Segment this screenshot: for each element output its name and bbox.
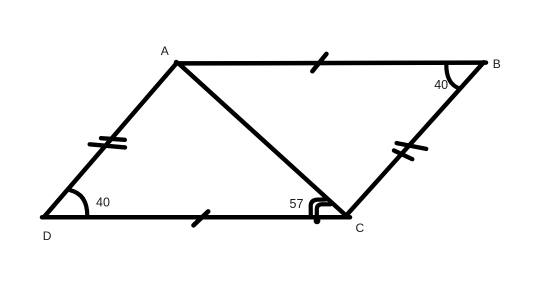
- dot below C angle arcs: [314, 217, 321, 224]
- side DA: [44, 63, 177, 217]
- side BC: [346, 62, 484, 216]
- svg-text:B: B: [493, 57, 501, 71]
- side AB: [177, 60, 486, 65]
- angle arc at D: [70, 190, 87, 216]
- inner angle arc at C: [317, 204, 331, 217]
- svg-text:C: C: [356, 221, 365, 235]
- svg-text:40: 40: [96, 196, 110, 210]
- angle arc at B: [446, 64, 459, 89]
- tick mark on AB: [312, 54, 326, 71]
- svg-text:D: D: [43, 229, 52, 243]
- double tick upper on DA: [101, 138, 125, 140]
- double tick lower on DA: [90, 144, 125, 147]
- diagonal AC: [179, 64, 347, 216]
- tick mark on DC: [194, 211, 209, 225]
- side DC: [42, 215, 350, 220]
- svg-text:A: A: [161, 44, 169, 58]
- double tick lower on BC: [394, 151, 412, 160]
- vertex dot A: [174, 60, 179, 65]
- outer angle arc at C: [311, 200, 326, 216]
- svg-text:40: 40: [434, 78, 448, 92]
- double tick upper on BC: [397, 143, 427, 149]
- svg-text:57: 57: [290, 197, 304, 211]
